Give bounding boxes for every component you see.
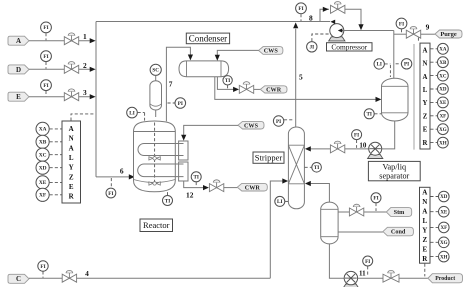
separator bottom seam <box>382 112 409 114</box>
analyzer circle XF product <box>439 222 450 233</box>
instrument TI reactor CW <box>191 172 201 182</box>
wire stream 4 riser <box>270 181 282 278</box>
condenser drum <box>179 61 229 77</box>
wire product to tag <box>399 277 428 279</box>
wire dash XE purge <box>430 101 437 103</box>
svg-text:Condenser: Condenser <box>189 33 228 43</box>
wire C feed line <box>29 277 270 279</box>
feed tag D <box>8 65 29 74</box>
wire separator overhead riser <box>393 31 395 79</box>
instrument LI reactor <box>127 107 138 118</box>
svg-text:3: 3 <box>83 88 87 97</box>
wire PI stripper dash <box>284 119 293 121</box>
analyzer circle XA feed <box>36 122 49 135</box>
svg-text:FI: FI <box>43 54 48 60</box>
svg-text:XH: XH <box>440 255 448 260</box>
svg-text:2: 2 <box>83 61 87 70</box>
svg-text:Cond: Cond <box>391 229 406 236</box>
wire FI3 tap <box>45 91 47 96</box>
analyzer circle XA purge <box>438 43 449 54</box>
wire dash XC purge <box>430 75 437 77</box>
utility tag Cond <box>383 227 414 236</box>
wire to CWR condenser tag <box>254 88 261 90</box>
reactor dome seam <box>134 131 176 133</box>
label box Compressor <box>327 42 373 51</box>
analyzer circle XE feed <box>36 176 49 189</box>
wire PI reactor dash <box>168 102 175 104</box>
label box Condenser <box>186 33 229 44</box>
analyzer circle XE purge <box>438 97 449 108</box>
wire purge line <box>394 33 407 35</box>
arrow stream 1 into header <box>90 38 96 43</box>
svg-text:Compressor: Compressor <box>331 42 367 51</box>
svg-text:Stripper: Stripper <box>255 153 283 163</box>
wire E feed line <box>29 96 90 98</box>
instrument FI stream 2 <box>41 51 52 62</box>
svg-text:XG: XG <box>439 128 447 133</box>
wire dash XF feed <box>50 194 62 196</box>
pump product <box>343 271 359 287</box>
wire dash XD product <box>430 196 438 198</box>
wire FI product tap <box>367 266 369 276</box>
valve compressor bypass <box>331 2 345 14</box>
wire dash XC feed <box>50 154 62 156</box>
valve stream 1 <box>64 33 78 45</box>
svg-text:TI: TI <box>366 112 371 118</box>
arrow stream 2 into header <box>90 67 96 72</box>
reactor bottom seam <box>134 180 176 183</box>
instrument JI compressor <box>307 42 317 52</box>
svg-text:8: 8 <box>309 14 313 23</box>
wire product analyzer dash <box>424 264 426 277</box>
arrow compressor discharge <box>330 20 335 24</box>
wire FI purge tap <box>401 29 403 33</box>
svg-text:7: 7 <box>169 79 173 88</box>
svg-text:XB: XB <box>439 61 447 66</box>
svg-text:1: 1 <box>83 32 87 41</box>
valve product stream 11 <box>383 270 399 282</box>
svg-text:CWS: CWS <box>244 122 259 129</box>
wire steam to tag <box>364 211 387 213</box>
wire analyzer sample dashed <box>71 114 94 121</box>
svg-text:XF: XF <box>440 115 447 120</box>
wire dash XE product <box>430 211 438 213</box>
svg-text:XA: XA <box>439 48 447 53</box>
valve stream 3 <box>64 89 78 101</box>
instrument PI separator <box>401 59 411 69</box>
wire bypass left leg <box>320 9 329 21</box>
wire FI10 tap <box>356 140 358 148</box>
utility tag CWR reactor <box>237 183 267 191</box>
svg-text:PI: PI <box>404 62 409 68</box>
svg-text:FI: FI <box>373 196 378 202</box>
wire reboiler return <box>311 184 330 203</box>
wire dash XH product <box>430 256 438 258</box>
label box Vap/liq separator <box>368 161 420 180</box>
analyzer circle XH product <box>439 251 450 262</box>
arrow stream 4 into stripper <box>282 178 288 183</box>
wire dash XD feed <box>50 167 62 169</box>
analyzer circle XB feed <box>36 135 49 148</box>
wire agitator shaft stub <box>155 110 157 117</box>
instrument FI stream 4 <box>38 261 48 271</box>
svg-text:XC: XC <box>39 153 47 159</box>
svg-text:CWS: CWS <box>264 48 279 55</box>
svg-text:XD: XD <box>39 166 47 172</box>
valve stream 12 cooling water <box>209 180 223 192</box>
wire FI steam tap <box>375 203 377 211</box>
reactor cooling coil lower U-tube <box>138 164 184 177</box>
instrument FI stream 1 <box>41 22 52 33</box>
wire condenser CWR line <box>217 77 233 90</box>
svg-text:FI: FI <box>43 25 48 31</box>
analyzer box reactor feed <box>62 121 81 203</box>
wire LI stripper dash <box>285 200 288 202</box>
svg-text:XE: XE <box>39 180 47 186</box>
instrument FI stream 10 <box>352 130 362 140</box>
wire reactor overhead stream 7 <box>166 47 190 121</box>
svg-text:XC: XC <box>439 74 447 79</box>
svg-text:9: 9 <box>426 23 430 32</box>
analyzer circle XD feed <box>36 161 49 174</box>
wire TI stripper dash <box>305 166 312 168</box>
wire dash XG product <box>430 241 438 243</box>
arrow condenser CWR <box>233 87 239 92</box>
arrow stream 6 into reactor <box>129 174 135 179</box>
reactor cooling coil upper U-tube <box>138 144 184 156</box>
svg-text:SC: SC <box>152 68 159 74</box>
svg-text:LI: LI <box>129 110 134 116</box>
svg-text:E: E <box>16 93 21 101</box>
svg-text:separator: separator <box>379 171 409 180</box>
separator top seam <box>382 85 409 87</box>
analyzer circle XC purge <box>438 70 449 81</box>
svg-text:XD: XD <box>440 195 448 200</box>
wire stream 10 line <box>345 148 369 150</box>
wire dash XB purge <box>430 61 437 63</box>
wire bypass right leg <box>345 9 361 24</box>
arrow CWS into coil header <box>181 135 186 141</box>
svg-text:PI: PI <box>178 101 183 107</box>
condenser tube sheet right <box>220 61 222 77</box>
wire dash XB feed <box>50 141 62 143</box>
label box Stripper <box>253 152 284 163</box>
instrument PI reactor <box>175 98 186 109</box>
wire dash XF purge <box>430 115 437 117</box>
svg-text:FI: FI <box>108 191 113 197</box>
svg-text:4: 4 <box>85 269 89 278</box>
feed tag A <box>8 36 29 45</box>
wire FI2 tap <box>45 62 47 69</box>
svg-text:10: 10 <box>359 142 367 150</box>
analyzer circle XD purge <box>438 84 449 95</box>
wire TI CW tap <box>195 182 197 187</box>
instrument FI stream 8 <box>296 3 307 14</box>
valve stream 4 <box>62 270 76 282</box>
arrow stream 10 into stripper <box>305 146 311 151</box>
agitator capsule seam <box>150 104 162 106</box>
svg-text:Reactor: Reactor <box>143 220 170 230</box>
analyzer box purge <box>420 43 430 149</box>
wire stream 6 line <box>96 176 129 178</box>
arrow into separator <box>376 97 382 102</box>
wire dash XD purge <box>430 88 437 90</box>
utility tag Stm <box>386 208 411 217</box>
svg-text:Stm: Stm <box>394 209 406 216</box>
wire recycle line top <box>96 21 330 23</box>
wire JI dash <box>312 34 330 41</box>
svg-text:C: C <box>16 275 21 283</box>
coil header upper rect <box>179 141 188 160</box>
condenser tube sheet left <box>186 61 188 77</box>
svg-text:A: A <box>16 37 21 45</box>
stripper packing section <box>288 145 304 184</box>
wire FI4 tap <box>42 271 44 277</box>
instrument TI stripper <box>312 163 322 173</box>
instrument LI separator <box>374 59 384 69</box>
utility tag CWS reactor <box>238 121 264 129</box>
svg-text:Vap/liq: Vap/liq <box>382 162 406 171</box>
arrow CWS into condenser <box>215 55 220 61</box>
wire purge to tag <box>421 33 435 35</box>
svg-text:JI: JI <box>309 45 314 51</box>
utility tag Product <box>428 274 463 283</box>
wire PI separator dash <box>396 63 402 65</box>
wire feed header vertical <box>95 22 97 177</box>
wire dash XF product <box>430 226 438 228</box>
wire CWS condenser line <box>217 50 258 55</box>
svg-text:FI: FI <box>43 83 48 89</box>
feed tag E <box>8 92 29 101</box>
svg-text:Product: Product <box>435 276 455 282</box>
instrument FI steam <box>371 193 381 203</box>
svg-text:TI: TI <box>314 165 319 171</box>
arrow bypass down <box>358 24 363 30</box>
feed tag C <box>8 274 29 283</box>
reactor vessel <box>134 121 176 192</box>
analyzer circle XH purge <box>438 137 449 148</box>
instrument FI stream 3 <box>41 80 52 91</box>
svg-text:TI: TI <box>225 78 230 84</box>
wire dash XG purge <box>430 128 437 130</box>
wire D feed line <box>29 68 90 70</box>
wire A feed line <box>29 40 90 42</box>
wire steam line <box>338 211 349 213</box>
valve stream 2 <box>64 62 78 74</box>
valve steam <box>349 204 363 216</box>
svg-text:FI: FI <box>298 6 303 12</box>
wire product line <box>358 277 383 279</box>
wire dash XA purge <box>430 48 437 50</box>
svg-text:FI: FI <box>40 264 45 270</box>
analyzer circle XC feed <box>36 148 49 161</box>
analyzer circle XG product <box>439 237 450 248</box>
svg-text:XE: XE <box>439 101 447 106</box>
wire FI8 tap <box>300 14 302 21</box>
svg-text:XD: XD <box>439 88 447 93</box>
stripper column <box>288 127 304 209</box>
reboiler top seam <box>321 208 338 210</box>
arrow stream 5 into recycle <box>293 22 298 28</box>
svg-text:XG: XG <box>440 241 448 246</box>
label box Reactor <box>140 219 173 232</box>
agitator impeller lower <box>149 182 160 185</box>
agitator motor capsule <box>150 81 162 110</box>
svg-text:5: 5 <box>299 73 303 82</box>
arrow CW return <box>203 185 209 190</box>
instrument PI stripper <box>273 116 283 126</box>
wire CW return to CWR <box>224 187 238 189</box>
analyzer circle XF purge <box>438 110 449 121</box>
svg-text:11: 11 <box>359 270 366 278</box>
analyzer circle XG purge <box>438 124 449 135</box>
arrow reboiler vapor into stripper <box>305 181 311 186</box>
wire FI1 tap <box>45 33 47 40</box>
arrow bypass <box>323 7 329 12</box>
wire dash XA feed <box>50 128 62 130</box>
analyzer circle XD product <box>439 191 450 202</box>
instrument FI product <box>363 256 373 266</box>
svg-text:FI: FI <box>365 259 370 265</box>
wire stream 5 stripper overhead <box>295 29 297 127</box>
instrument TI reactor bottom <box>163 196 173 206</box>
arrow stream 3 into header <box>90 94 96 99</box>
wire condensate line <box>338 231 383 233</box>
instrument LI stripper <box>275 196 285 206</box>
svg-text:XF: XF <box>39 193 47 199</box>
analyzer sample line purge <box>413 44 415 150</box>
wire agitator shaft dashed <box>154 123 156 185</box>
utility tag CWS condenser <box>259 47 283 55</box>
svg-text:FI: FI <box>399 21 404 27</box>
analyzer circle XB purge <box>438 57 449 68</box>
valve stream 10 <box>330 141 344 153</box>
wire compressor suction <box>339 30 394 32</box>
utility tag Purge <box>435 30 462 38</box>
wire separator bottom line <box>382 121 395 149</box>
wire coil return line <box>184 181 203 188</box>
instrument SC agitator <box>150 64 161 75</box>
svg-text:6: 6 <box>120 167 124 176</box>
analyzer box product <box>420 187 431 263</box>
svg-text:PI: PI <box>276 119 281 125</box>
svg-text:TI: TI <box>193 175 198 181</box>
reboiler vessel <box>321 202 338 244</box>
svg-text:XA: XA <box>39 127 47 133</box>
svg-text:12: 12 <box>186 191 194 200</box>
instrument FI stream 6 <box>106 188 116 198</box>
wire dash XE feed <box>50 181 62 183</box>
analyzer circle XF feed <box>36 188 49 201</box>
instrument FI purge <box>396 18 407 29</box>
wire LI separator dash <box>385 64 391 77</box>
instrument TI condenser <box>223 76 232 85</box>
svg-text:D: D <box>16 66 21 74</box>
svg-text:CWR: CWR <box>266 87 282 94</box>
svg-text:Purge: Purge <box>440 31 456 38</box>
wire reboiler bottoms <box>329 244 344 278</box>
svg-text:FI: FI <box>354 132 359 138</box>
agitator impeller upper <box>149 157 160 160</box>
arrow into compressor <box>338 28 343 32</box>
svg-text:LI: LI <box>277 199 282 205</box>
svg-text:XE: XE <box>440 210 448 215</box>
arrow vapor into condenser <box>188 55 193 61</box>
reboiler bottom seam <box>321 236 338 238</box>
pump separator liquid <box>368 142 383 158</box>
wire FI6 tap <box>110 178 112 188</box>
svg-text:XB: XB <box>39 140 47 146</box>
analyzer circle XE product <box>439 206 450 217</box>
compressor <box>329 24 345 41</box>
wire TI condenser tap <box>227 85 229 89</box>
valve condenser CWR <box>239 82 253 94</box>
svg-text:CWR: CWR <box>245 184 261 191</box>
wire stream 10 to stripper <box>311 148 331 150</box>
wire SC stem <box>155 75 157 80</box>
valve purge stream 9 <box>406 26 420 38</box>
wire LI reactor dash <box>138 113 145 121</box>
svg-text:LI: LI <box>376 62 381 68</box>
wire purge analyzer dash <box>417 38 419 43</box>
wire TI reactor tap <box>167 191 169 195</box>
utility tag CWR condenser <box>260 86 287 94</box>
wire CWS reactor line <box>184 125 238 135</box>
wire TI separator dash <box>374 113 381 115</box>
instrument TI separator <box>364 109 374 119</box>
coil header lower rect <box>179 162 188 181</box>
svg-text:TI: TI <box>165 198 170 204</box>
separator vessel <box>382 78 409 121</box>
svg-text:XH: XH <box>439 141 447 146</box>
wire dash XH purge <box>430 142 437 144</box>
wire condensate to separator <box>215 77 376 100</box>
svg-text:XF: XF <box>440 226 447 231</box>
